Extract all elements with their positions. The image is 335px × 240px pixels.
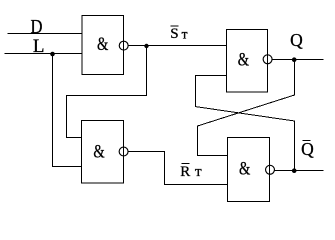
- wire cross-coupling Q to DD4 input 1: [198, 60, 295, 156]
- wire cross-coupling Q-bar to DD3 input 2: [196, 76, 295, 171]
- overbar of S label: [171, 25, 179, 27]
- wire L input: [5, 53, 83, 55]
- NAND gate DD3 (top-right): [227, 30, 268, 93]
- wire from S-bar node down-left into DD2 input 1: [67, 46, 147, 138]
- svg-text:L: L: [33, 36, 45, 57]
- node on S-bar wire: [144, 44, 148, 48]
- svg-text:т: т: [182, 26, 188, 41]
- svg-text:Q: Q: [290, 30, 303, 50]
- svg-text:Q: Q: [301, 139, 314, 159]
- svg-text:&: &: [239, 160, 251, 180]
- svg-text:D: D: [31, 16, 43, 38]
- overbar of Q label: [303, 140, 311, 142]
- wire D input: [8, 33, 83, 35]
- node on Q wire: [292, 57, 297, 62]
- inverter bubble of DD1: [119, 41, 128, 50]
- svg-text:&: &: [97, 35, 109, 55]
- svg-text:R: R: [180, 164, 190, 180]
- overbar of R label: [182, 163, 190, 165]
- svg-text:&: &: [93, 143, 105, 163]
- node on L line: [50, 52, 55, 57]
- wire S-bar from DD1 to DD3: [128, 45, 227, 47]
- NAND gate DD1 (top-left): [82, 16, 124, 75]
- inverter bubble of DD3: [263, 55, 272, 64]
- svg-text:S: S: [170, 26, 178, 42]
- wire Q output: [272, 59, 324, 61]
- inverter bubble of DD4: [266, 165, 275, 174]
- svg-text:&: &: [238, 51, 250, 71]
- wire R-bar from DD2 to DD4: [128, 152, 228, 185]
- node on Q-bar wire: [292, 168, 297, 173]
- inverter bubble of DD2: [119, 147, 128, 156]
- svg-text:т: т: [195, 164, 203, 180]
- NAND gate DD4 (bottom-right): [228, 138, 270, 202]
- wire from L node down into DD2 input 2: [53, 54, 83, 167]
- NAND gate DD2 (bottom-left): [82, 121, 124, 184]
- wire Q-bar output: [274, 170, 323, 172]
